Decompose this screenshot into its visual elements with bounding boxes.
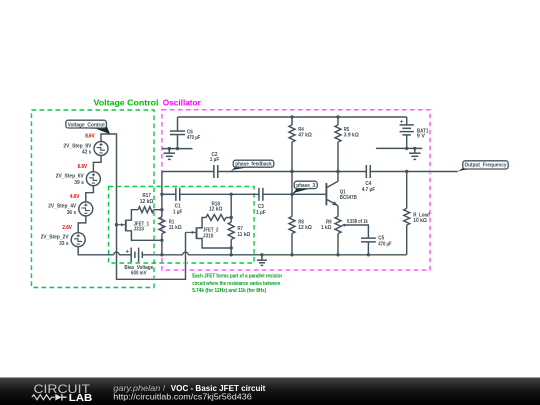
svg-text:42 s: 42 s	[82, 150, 92, 156]
svg-text:R17: R17	[142, 193, 151, 199]
svg-text:11 kΩ: 11 kΩ	[237, 232, 250, 238]
svg-text:circuit where the resistance v: circuit where the resistance varies betw…	[192, 281, 280, 287]
svg-text:J310: J310	[134, 227, 145, 233]
svg-text:470 µF: 470 µF	[187, 135, 200, 141]
svg-text:8.6V: 8.6V	[85, 134, 95, 140]
svg-text:47 kΩ: 47 kΩ	[298, 133, 312, 139]
svg-text:Output_Frequency: Output_Frequency	[465, 163, 507, 169]
svg-text:J310: J310	[203, 233, 214, 239]
svg-text:6.6V: 6.6V	[78, 164, 88, 170]
svg-text:12 kΩ: 12 kΩ	[298, 225, 312, 231]
svg-text:2V_Step_6V: 2V_Step_6V	[56, 174, 85, 180]
svg-text:phase_feedback: phase_feedback	[235, 162, 272, 168]
svg-text:600 mV: 600 mV	[131, 271, 147, 277]
svg-text:+: +	[125, 248, 129, 255]
svg-text:5.74k (for 12Hz) and 11k (for: 5.74k (for 12Hz) and 11k (for 8Hz)	[192, 288, 266, 294]
svg-text:2V_Step_2V: 2V_Step_2V	[41, 235, 70, 241]
svg-text:3.9 kΩ: 3.9 kΩ	[344, 133, 359, 139]
svg-text:12 kΩ: 12 kΩ	[140, 199, 154, 205]
svg-text:11 kΩ: 11 kΩ	[169, 225, 182, 231]
svg-text:10 kΩ: 10 kΩ	[413, 218, 427, 224]
svg-text:1 µF: 1 µF	[173, 209, 183, 215]
svg-text:2V_Step_8V: 2V_Step_8V	[63, 143, 92, 149]
svg-text:Voltage_Control: Voltage_Control	[68, 123, 106, 129]
svg-text:470 µF: 470 µF	[378, 242, 391, 248]
svg-text:12 kΩ: 12 kΩ	[209, 207, 223, 213]
svg-text:33 s: 33 s	[59, 241, 69, 247]
svg-text:0.938 of 1k: 0.938 of 1k	[347, 219, 368, 225]
svg-text:4.6V: 4.6V	[70, 194, 80, 200]
svg-text:BC547B: BC547B	[340, 195, 357, 201]
svg-text:4.7 µF: 4.7 µF	[362, 187, 375, 193]
svg-text:2V_Step_4V: 2V_Step_4V	[48, 204, 77, 210]
svg-text:phase_3: phase_3	[296, 183, 315, 189]
svg-text:Voltage ControlOscillator: Voltage ControlOscillator	[94, 98, 202, 107]
svg-text:39 s: 39 s	[74, 180, 84, 186]
svg-text:1 µF: 1 µF	[256, 210, 266, 216]
svg-text:2.6V: 2.6V	[62, 225, 72, 231]
svg-text:http://circuitlab.com/cs7kj5r5: http://circuitlab.com/cs7kj5r56d436	[113, 392, 252, 401]
svg-text:+: +	[400, 119, 404, 126]
svg-text:9 V: 9 V	[417, 134, 426, 140]
svg-text:Each JFET forms part of a para: Each JFET forms part of a parallel resis…	[192, 274, 282, 280]
svg-text:1 µF: 1 µF	[210, 157, 220, 163]
svg-text:LAB: LAB	[69, 393, 93, 404]
svg-text:1 kΩ: 1 kΩ	[321, 225, 332, 231]
svg-text:36 s: 36 s	[67, 210, 77, 216]
